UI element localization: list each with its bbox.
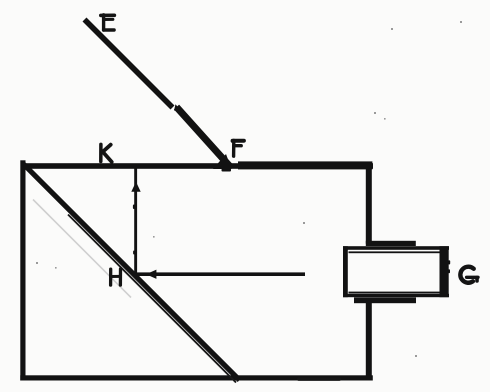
- eyepiece tube right end lens bar: [440, 246, 449, 297]
- label E: [101, 15, 115, 30]
- label F: [233, 140, 244, 156]
- lens bar right nubs: [448, 260, 450, 264]
- label K: [101, 144, 112, 162]
- box top edge right portion (thicker): [238, 161, 372, 169]
- junction fillet where ray EF meets top edge at F: [213, 154, 232, 169]
- horizontal ray G-H line: [136, 272, 305, 276]
- label G: [460, 267, 478, 283]
- box right edge upper segment: [366, 163, 372, 244]
- ink nub on vertical ray lower: [133, 251, 135, 255]
- box right edge lower segment: [366, 303, 372, 381]
- incident ray E-F lower segment: [177, 107, 231, 167]
- mirror back surface thin line: [68, 215, 236, 383]
- box top edge KF: [21, 163, 374, 169]
- box bottom edge: [20, 375, 373, 380]
- eyepiece tube outer top line: [343, 246, 449, 250]
- junction nub below top edge at F: [222, 169, 232, 172]
- scan speckles: [36, 21, 462, 357]
- eyepiece tube inner bottom line: [349, 292, 443, 294]
- bottom edge thick lump: [297, 378, 341, 381]
- ink nub on vertical ray: [133, 205, 135, 210]
- eyepiece tube bottom flange: [354, 297, 416, 303]
- arrowhead on horizontal ray (pointing left): [146, 270, 156, 279]
- eyepiece tube top flange: [366, 241, 416, 246]
- mirror main diagonal: [23, 164, 239, 380]
- eyepiece tube left wall: [343, 246, 348, 297]
- pen-start spur on lower ray segment: [174, 104, 182, 111]
- reflected ray H-K vertical line: [134, 169, 137, 277]
- eyepiece tube inner top line: [349, 251, 443, 253]
- mirror faint pencil line: [33, 200, 131, 298]
- label H: [111, 269, 121, 285]
- eyepiece tube outer bottom line: [343, 294, 449, 297]
- incident ray E-F upper segment: [85, 20, 173, 108]
- box left edge: [20, 160, 25, 380]
- arrowhead on vertical ray (pointing up): [131, 182, 140, 192]
